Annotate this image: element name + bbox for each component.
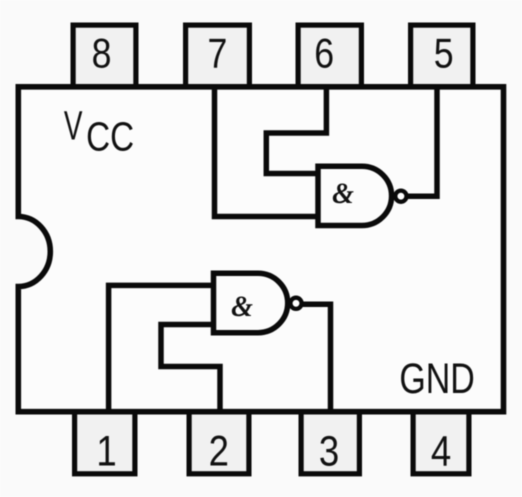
svg-text:&: & [231,290,253,323]
svg-text:CC: CC [86,113,134,159]
svg-text:7: 7 [207,31,227,77]
svg-text:5: 5 [434,31,454,77]
svg-text:GND: GND [399,355,474,403]
svg-text:1: 1 [96,428,116,475]
svg-text:&: & [332,177,354,210]
svg-text:V: V [64,103,83,149]
svg-text:3: 3 [319,428,339,475]
svg-text:4: 4 [431,428,451,475]
svg-text:2: 2 [209,428,229,475]
svg-text:8: 8 [92,31,112,77]
svg-text:6: 6 [314,31,334,77]
